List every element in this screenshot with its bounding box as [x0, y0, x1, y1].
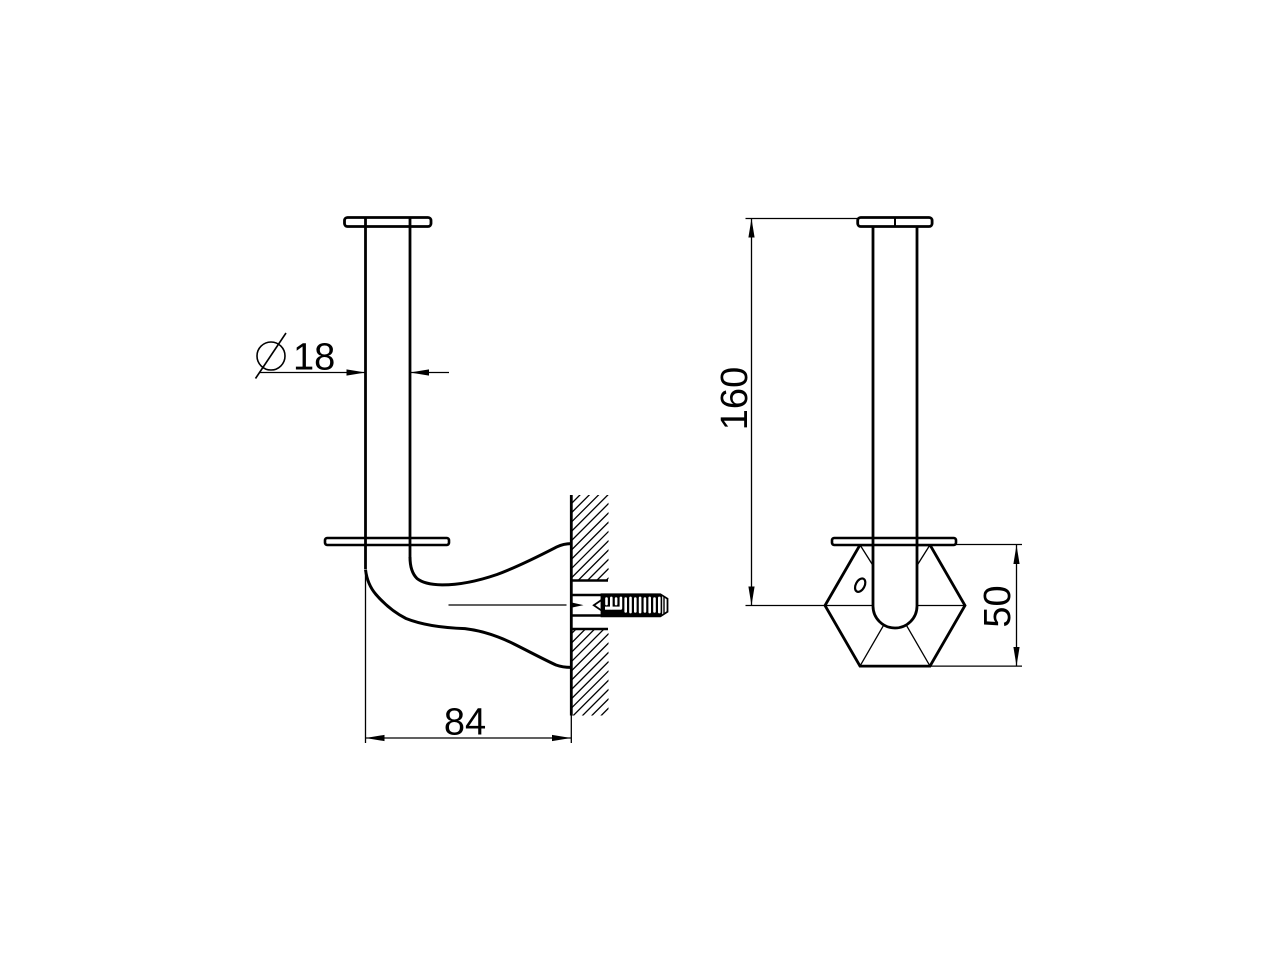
wall anchor plug tip ring line	[663, 597, 665, 615]
left view: roller tube left edge	[364, 218, 367, 569]
right view: rosette facet line from top-right vertex	[917, 545, 930, 566]
dimension 50: bottom arrowhead	[1013, 647, 1019, 666]
right view: fixing screw hole	[853, 577, 868, 594]
svg-text:50: 50	[977, 585, 1019, 627]
dimension 84: left arrowhead	[366, 735, 385, 741]
dimension 84: left extension line	[365, 570, 367, 743]
svg-text:160: 160	[714, 367, 756, 430]
wall hatching	[566, 457, 618, 760]
anchor drill hole lower line	[571, 614, 601, 616]
dimension 50: dimension line	[1016, 545, 1018, 666]
wall anchor plug split tip	[571, 602, 584, 608]
dimension Ø18: diameter symbol slash	[256, 333, 287, 379]
dimension Ø18: left arrowhead	[347, 369, 366, 375]
wall hole upper boundary line	[571, 579, 608, 582]
dimension 160: bottom arrowhead	[748, 587, 754, 606]
dimension 50: bottom extension line	[931, 665, 1022, 667]
dimension Ø18: right arrowhead	[410, 369, 429, 375]
right view: roller tube white fill	[873, 540, 917, 628]
dimension 84: right extension line	[570, 716, 572, 744]
dimension 160: top arrowhead	[748, 219, 754, 238]
dimension 160: dimension line	[751, 219, 753, 606]
right view: rosette facet line from bottom-left vertex	[860, 625, 884, 666]
left view: top cap disc (side)	[345, 218, 432, 227]
anchor drill hole upper line	[571, 594, 601, 596]
left view: bracket lower profile curve	[366, 570, 572, 668]
left view: roller tube right edge	[409, 218, 412, 558]
right view: rosette facet line from left vertex (and 160 extension)	[746, 605, 874, 607]
dimension Ø18: left line segment	[260, 372, 366, 374]
dimension 50: top extension line	[956, 544, 1022, 546]
wall hole lower boundary line	[571, 628, 608, 631]
right view: hexagonal rosette	[825, 545, 965, 666]
svg-text:84: 84	[444, 702, 486, 744]
right view: rosette facet line from right vertex	[917, 605, 965, 607]
right view: rosette facet line from bottom-right vertex	[906, 625, 930, 666]
wall anchor plug white rib slots	[605, 596, 667, 614]
dimension 84: dimension line	[366, 737, 572, 739]
right view: top cap disc (front)	[858, 218, 932, 227]
wall face edge line	[570, 495, 573, 716]
wall anchor plug ribbed body	[601, 594, 668, 617]
left view: bracket upper profile curve	[410, 544, 571, 585]
dimension 50: top arrowhead	[1013, 545, 1019, 564]
dimension Ø18: diameter symbol circle	[257, 342, 285, 370]
left view: bracket centerline	[449, 604, 567, 606]
wall anchor plug cone wedge	[594, 599, 603, 611]
dimension 84: right arrowhead	[552, 735, 571, 741]
dimension Ø18: right line segment	[410, 372, 449, 374]
svg-text:18: 18	[293, 337, 335, 379]
dimension 160: top extension line	[746, 218, 858, 220]
right view: cap seam line	[894, 218, 896, 226]
right view: roller tube outline with U bottom	[873, 227, 917, 629]
left view: mounting flange disc (side)	[325, 538, 449, 545]
right view: mounting flange disc (front)	[832, 538, 956, 545]
right view: rosette facet line from top-left vertex	[860, 545, 873, 566]
